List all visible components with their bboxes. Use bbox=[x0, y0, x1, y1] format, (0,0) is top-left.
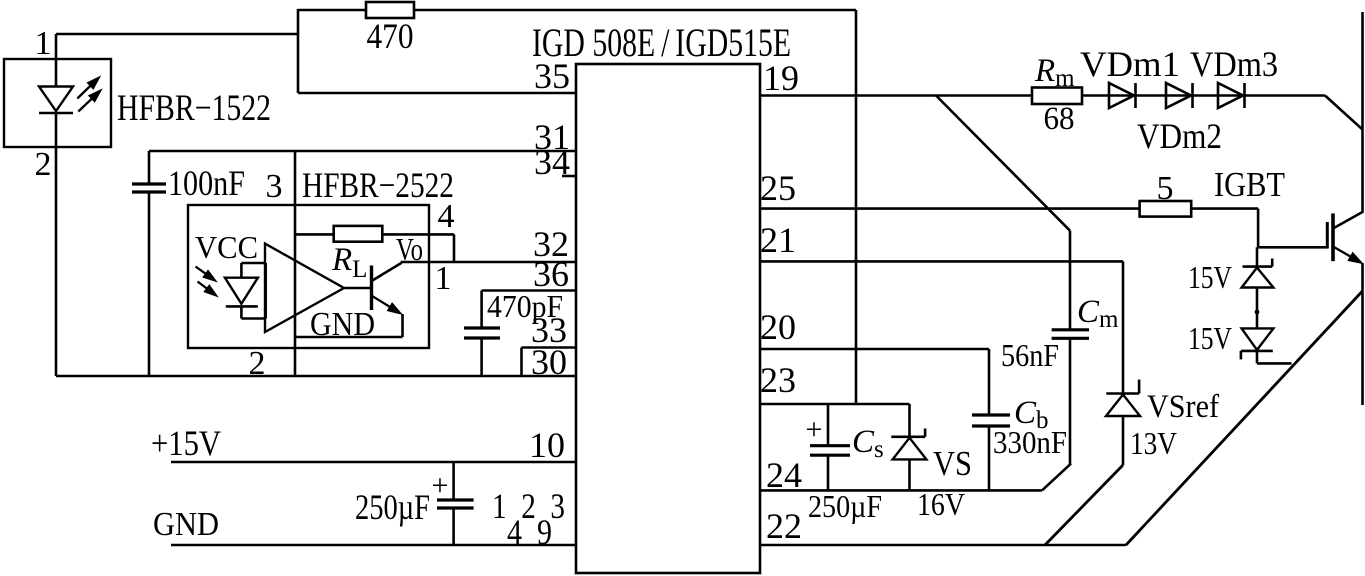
svg-text:25: 25 bbox=[760, 168, 796, 208]
IC U1 IGD508E/IGD515E box bbox=[576, 64, 760, 573]
wire gate lead bbox=[1258, 246, 1327, 249]
wire emitter vertical bbox=[1361, 263, 1364, 405]
svg-text:VDm2: VDm2 bbox=[1137, 116, 1222, 156]
wire Cb bottom lead bbox=[988, 426, 991, 490]
label VS bbox=[933, 444, 972, 483]
wire diag node to Cm bbox=[936, 96, 1070, 231]
junction dot zener chain bbox=[1255, 310, 1260, 315]
wire pin35 bbox=[298, 92, 576, 95]
wire VSref bottom lead bbox=[1122, 416, 1125, 465]
wire pin21 bbox=[760, 260, 1123, 263]
svg-text:470: 470 bbox=[367, 16, 414, 56]
svg-text:100nF: 100nF bbox=[168, 163, 245, 203]
pin 36 bbox=[533, 254, 569, 294]
svg-text:20: 20 bbox=[760, 307, 796, 347]
photodiode light arrows bbox=[196, 267, 218, 297]
pin 20 bbox=[760, 307, 796, 347]
pin 22 bbox=[766, 506, 802, 546]
svg-text:24: 24 bbox=[766, 455, 802, 495]
label Cs bbox=[852, 424, 884, 463]
transistor Q1 emitter arrow bbox=[372, 296, 402, 315]
zener VSref bbox=[1106, 380, 1140, 416]
pin 10 bbox=[529, 425, 565, 465]
label 15V (VZ1) bbox=[1188, 259, 1232, 295]
label HFBR-1522 bbox=[117, 88, 271, 129]
value 470 bbox=[367, 16, 414, 56]
pin 32 bbox=[533, 224, 569, 264]
wire between zeners bbox=[1256, 288, 1259, 329]
label Vo bbox=[396, 231, 423, 267]
photodiode axis top bbox=[240, 263, 243, 278]
svg-text:+: + bbox=[806, 413, 823, 446]
zener VZ2 15V bbox=[1241, 328, 1274, 359]
wire pin31 bbox=[149, 150, 576, 153]
wire pin24 bus bbox=[760, 489, 1042, 492]
wire Cb top lead bbox=[988, 349, 991, 415]
svg-text:5: 5 bbox=[1157, 170, 1174, 207]
svg-text:30: 30 bbox=[531, 342, 567, 382]
label 1 (HFBR-2522 pin 1) bbox=[435, 260, 452, 297]
photodiode D2 triangle bbox=[225, 278, 258, 304]
capacitor Cb bbox=[972, 415, 1010, 426]
LED light arrows bbox=[77, 77, 101, 112]
svg-text:GND: GND bbox=[153, 506, 219, 543]
pin 31 bbox=[534, 117, 570, 157]
resistor RL bbox=[334, 226, 383, 242]
pin 23 bbox=[760, 360, 796, 400]
wire pin23 bbox=[760, 403, 910, 406]
transistor Q1 bar bbox=[370, 266, 373, 311]
value 250uF (Cs) bbox=[808, 488, 882, 524]
IGBT Q2 body bar bbox=[1331, 213, 1335, 261]
svg-text:3: 3 bbox=[266, 168, 283, 205]
svg-text:250µF: 250µF bbox=[355, 487, 430, 527]
wire LED anode lead bbox=[55, 34, 58, 87]
label GND (HFBR-2522) bbox=[310, 306, 375, 343]
svg-text:13V: 13V bbox=[1130, 425, 1177, 461]
wire pin32 Vo bbox=[401, 261, 576, 264]
wire LED cathode / pin2 down to gnd bus bbox=[55, 113, 58, 376]
label 2 (HFBR-1522 pin 2) bbox=[35, 146, 52, 183]
transistor Q1 collector bbox=[372, 263, 402, 281]
label HFBR-2522 bbox=[302, 165, 454, 205]
diode VDm1 bbox=[1109, 83, 1136, 108]
op-amp U2 triangle bbox=[265, 244, 344, 332]
svg-text:10: 10 bbox=[529, 425, 565, 465]
wire Cs top lead bbox=[827, 404, 830, 446]
label Cm bbox=[1077, 294, 1119, 333]
photodiode axis bottom bbox=[240, 306, 243, 318]
svg-text:330nF: 330nF bbox=[993, 424, 1067, 460]
zener VS bbox=[891, 429, 926, 460]
value 68 bbox=[1044, 101, 1075, 137]
label VDm3 bbox=[1190, 44, 1278, 84]
capacitor Cs bbox=[810, 446, 850, 456]
IGBT Q2 emitter arrow bbox=[1333, 247, 1363, 264]
wire 100nF top lead bbox=[148, 151, 151, 184]
wire diag bus to VSref bbox=[1045, 465, 1123, 545]
wire 470pF bottom lead bbox=[480, 338, 483, 376]
wire gate corner down bbox=[1257, 209, 1260, 248]
svg-text:21: 21 bbox=[760, 220, 796, 260]
wire VSref top lead bbox=[1122, 261, 1125, 393]
label VCC bbox=[195, 229, 258, 265]
resistor 470 bbox=[366, 2, 414, 18]
svg-text:VCC: VCC bbox=[195, 229, 258, 265]
pins 1 2 3 bbox=[492, 486, 565, 526]
diode VDm3 bbox=[1218, 83, 1245, 108]
svg-text:IGBT: IGBT bbox=[1214, 165, 1285, 204]
wire collector vertical bbox=[1361, 12, 1364, 213]
svg-text:HFBR−1522: HFBR−1522 bbox=[117, 88, 271, 129]
wire 470pF top lead bbox=[480, 291, 483, 329]
value 470pF bbox=[487, 288, 563, 324]
capacitor Cm bbox=[1052, 330, 1089, 339]
resistor Rm bbox=[1032, 88, 1082, 105]
wire emitter diagonal to bus bbox=[1126, 291, 1363, 545]
label 1 (HFBR-1522 pin 1) bbox=[35, 25, 52, 62]
pin 19 bbox=[763, 58, 799, 98]
wire pin33 to gnd bus bbox=[520, 348, 523, 377]
label 4 (HFBR-2522 pin 4) bbox=[438, 198, 455, 235]
label RL bbox=[331, 242, 367, 283]
svg-text:VDm3: VDm3 bbox=[1190, 44, 1278, 84]
value 56nF bbox=[1001, 337, 1059, 373]
capacitor 470pF bbox=[464, 328, 500, 338]
wire pin33 bbox=[522, 346, 577, 349]
pin34 stub bbox=[562, 175, 576, 178]
capacitor Cs plus bbox=[806, 413, 823, 446]
label IGBT bbox=[1214, 165, 1285, 204]
photodiode D2 cathode bar bbox=[226, 305, 258, 308]
label VDm1 bbox=[1080, 44, 1180, 84]
label VDm2 bbox=[1137, 116, 1222, 156]
wire pin20 bbox=[760, 348, 989, 351]
svg-text:35: 35 bbox=[534, 56, 570, 96]
label VSref bbox=[1147, 389, 1219, 425]
pin 21 bbox=[760, 220, 796, 260]
capacitor C 100nF bbox=[132, 184, 166, 192]
photodiode frame bbox=[241, 263, 265, 319]
value 100nF bbox=[168, 163, 245, 203]
HFBR-1522 box bbox=[4, 59, 111, 147]
value 16V bbox=[917, 486, 965, 522]
svg-text:15V: 15V bbox=[1188, 259, 1232, 295]
LED D1 cathode bar bbox=[39, 112, 73, 115]
svg-text:VDm1: VDm1 bbox=[1080, 44, 1180, 84]
wire resistor5 to corner bbox=[1191, 207, 1258, 210]
value 330nF bbox=[993, 424, 1067, 460]
svg-text:250µF: 250µF bbox=[808, 488, 882, 524]
svg-text:VSref: VSref bbox=[1147, 389, 1219, 425]
svg-text:15V: 15V bbox=[1188, 320, 1232, 356]
label +15V bbox=[151, 423, 221, 463]
label GND bbox=[153, 506, 219, 543]
capacitor 250uF bbox=[437, 500, 474, 508]
pin 34 bbox=[534, 142, 570, 182]
svg-text:IGD 508E / IGD515E: IGD 508E / IGD515E bbox=[532, 20, 791, 65]
label 2 (HFBR-2522 pin 2) bbox=[249, 345, 266, 382]
svg-text:HFBR−2522: HFBR−2522 bbox=[302, 165, 454, 205]
zener VZ1 15V bbox=[1242, 259, 1274, 288]
wire pin25 bbox=[760, 207, 1140, 210]
wire Cm bottom lead bbox=[1069, 338, 1072, 464]
svg-text:34: 34 bbox=[534, 142, 570, 182]
wire zener chain bottom bbox=[1257, 351, 1292, 364]
wire pin22 bus bbox=[760, 544, 1126, 547]
pins 4 9 bbox=[507, 512, 552, 552]
wire top 470-ohm branch bbox=[298, 9, 856, 12]
capacitor 250uF plus bbox=[432, 469, 449, 502]
resistor 5 (gate) bbox=[1140, 201, 1192, 217]
node A vertical (top resistor branch to pin35 wire) bbox=[297, 9, 300, 93]
wire pin36 bbox=[482, 289, 576, 292]
svg-text:1: 1 bbox=[435, 260, 452, 297]
wire pin1 HFBR-1522 to node A bbox=[56, 33, 298, 36]
svg-text:+: + bbox=[432, 469, 449, 502]
wire VS bottom lead bbox=[908, 459, 911, 490]
svg-text:68: 68 bbox=[1044, 101, 1075, 137]
label 15V (VZ2) bbox=[1188, 320, 1232, 356]
svg-text:22: 22 bbox=[766, 506, 802, 546]
wire Cs bottom lead bbox=[827, 455, 830, 490]
wire gnd bus pin30 bbox=[56, 375, 576, 378]
IGBT Q2 gate bar bbox=[1326, 222, 1329, 249]
svg-text:23: 23 bbox=[760, 360, 796, 400]
svg-text:2: 2 bbox=[35, 146, 52, 183]
pin 24 bbox=[766, 455, 802, 495]
wire zener chain top bbox=[1256, 247, 1259, 266]
wire emitter to gnd bbox=[295, 314, 403, 337]
wire RL right lead down bbox=[453, 234, 456, 262]
label IGD 508E/IGD515E bbox=[532, 20, 791, 65]
label Cb bbox=[1014, 395, 1049, 434]
label 3 (HFBR-2522 pin 3) bbox=[266, 168, 283, 205]
value 13V bbox=[1130, 425, 1177, 461]
wire diag bus to Cm bbox=[1042, 464, 1071, 491]
wire pin10 +15V bbox=[171, 461, 576, 464]
diode VDm2 bbox=[1166, 83, 1193, 108]
svg-text:56nF: 56nF bbox=[1001, 337, 1059, 373]
wire vertical bus x=856 down to pin23 wire bbox=[855, 10, 858, 405]
pin 35 bbox=[534, 56, 570, 96]
svg-text:36: 36 bbox=[533, 254, 569, 294]
HFBR-2522 box bbox=[188, 205, 429, 348]
wire pin19 bbox=[760, 94, 1325, 97]
label 5 bbox=[1157, 170, 1174, 207]
wire 250uF top lead bbox=[452, 462, 455, 500]
wire GND rail bbox=[171, 544, 576, 547]
svg-text:VS: VS bbox=[933, 444, 972, 483]
value 250uF bbox=[355, 487, 430, 527]
svg-text:19: 19 bbox=[763, 58, 799, 98]
label Rm bbox=[1034, 53, 1075, 92]
wire amp output to base bbox=[344, 287, 372, 290]
IGBT Q2 collector lead bbox=[1333, 212, 1363, 229]
wire 250uF bottom lead bbox=[452, 508, 455, 545]
wire 100nF bottom lead bbox=[148, 192, 151, 376]
svg-text:4: 4 bbox=[438, 198, 455, 235]
svg-text:+15V: +15V bbox=[151, 423, 221, 463]
wire VS top lead bbox=[908, 404, 911, 437]
svg-text:1: 1 bbox=[35, 25, 52, 62]
pin 30 bbox=[531, 342, 567, 382]
wire diag pin19 to collector bbox=[1325, 96, 1363, 130]
svg-text:GND: GND bbox=[310, 306, 375, 343]
pin 33 bbox=[531, 310, 567, 350]
wire pin3 vertical through box bbox=[294, 151, 297, 376]
pin 25 bbox=[760, 168, 796, 208]
LED D1 triangle bbox=[39, 87, 73, 112]
wire RL top branch bbox=[295, 233, 454, 236]
wire Cm top lead bbox=[1069, 231, 1072, 330]
